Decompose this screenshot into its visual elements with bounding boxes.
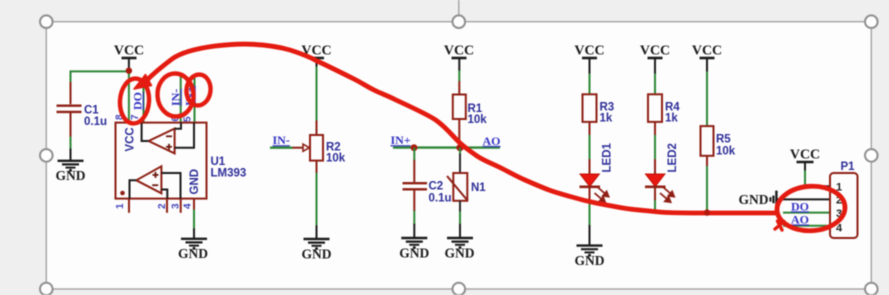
svg-text:GND: GND: [189, 169, 201, 195]
svg-text:10k: 10k: [326, 153, 346, 165]
wire R4 to LED2: [654, 135, 656, 160]
junction R5/GND rail: [704, 209, 710, 215]
svg-text:VCC: VCC: [125, 127, 137, 151]
svg-text:0.1u: 0.1u: [429, 193, 452, 205]
svg-text:1k: 1k: [600, 112, 613, 124]
ground below C1: [56, 137, 86, 183]
power VCC (P1): [790, 148, 820, 172]
capacitor C1: [57, 71, 129, 137]
svg-text:GND: GND: [399, 246, 429, 261]
wire IN+ / AO net: [393, 146, 500, 148]
ground below LED1: [575, 225, 605, 268]
svg-text:VCC: VCC: [692, 44, 722, 59]
LED2: [645, 143, 679, 202]
svg-text:5: 5: [183, 116, 194, 122]
junction R5 on rail (visible): [704, 210, 710, 216]
svg-text:DO: DO: [131, 92, 145, 110]
svg-text:1k: 1k: [665, 112, 678, 124]
power VCC (R4): [640, 44, 670, 75]
wire VCC to R4: [654, 74, 656, 95]
wire: IN+ to pin 5: [175, 123, 194, 148]
svg-text:C1: C1: [84, 105, 99, 117]
power VCC (R1): [444, 44, 474, 72]
wire U1 pin 7 stub (DO): [143, 82, 145, 123]
ground below U1: [178, 228, 208, 261]
wire VCC to R1: [458, 71, 460, 82]
thermistor N1: [447, 148, 486, 212]
wire DO to P1 pin 3: [783, 212, 830, 214]
emission arrows: [595, 188, 609, 203]
svg-text:IN-: IN-: [169, 89, 183, 106]
wire LED1 to ground: [589, 200, 591, 225]
wire ground to P1 pin 2: [776, 198, 830, 200]
svg-text:GND: GND: [445, 246, 475, 261]
wire LED2 to GND rail: [654, 200, 656, 213]
ground below C2: [399, 211, 429, 261]
annotation: stray tick: [775, 221, 784, 230]
wire R3 to LED1: [589, 135, 591, 160]
wire R2 to ground: [316, 173, 318, 226]
wire: output to pin 7: [142, 123, 149, 141]
power VCC (R3): [574, 44, 604, 75]
svg-text:GND: GND: [739, 192, 769, 207]
annotation: circles around IN- / IN+: [156, 72, 195, 117]
svg-text:10k: 10k: [716, 146, 736, 158]
wire U1 pin 6 stub (IN-): [180, 76, 182, 123]
wire: [71, 71, 129, 83]
svg-text:GND: GND: [575, 253, 605, 268]
wire U1 pin 5 stub (IN+): [194, 76, 196, 123]
power VCC (R5): [692, 44, 722, 73]
svg-text:LED2: LED2: [667, 143, 679, 172]
svg-text:P1: P1: [841, 161, 856, 173]
junction C2: [411, 144, 418, 151]
connector P1: [830, 161, 858, 238]
svg-text:N1: N1: [471, 182, 486, 194]
svg-text:GND: GND: [178, 246, 208, 261]
pin-1 dot: [120, 191, 125, 196]
emission arrows: [660, 188, 674, 203]
svg-text:IN+: IN+: [391, 133, 411, 147]
junction R1/N1: [456, 144, 463, 151]
wiper arrow: [292, 147, 303, 149]
wire VCC to R5: [706, 72, 708, 127]
wire VCC to R2: [316, 67, 318, 122]
svg-text:LM393: LM393: [211, 167, 247, 179]
svg-text:VCC: VCC: [444, 44, 474, 59]
resistor R3: [583, 94, 615, 135]
svg-text:LED1: LED1: [602, 143, 614, 173]
wire: IN+ to pin 3: [161, 173, 180, 199]
wire IN- to R2 wiper: [270, 146, 293, 148]
potentiometer R2: [292, 121, 346, 174]
svg-text:4: 4: [183, 203, 194, 209]
wire U1 pin 4 to ground: [193, 210, 195, 229]
U1 bottom pin stubs: [129, 199, 194, 213]
resistor R1: [453, 95, 487, 148]
svg-text:GND: GND: [56, 168, 86, 183]
LED1: [580, 143, 614, 203]
annotation: arrowhead: [134, 75, 152, 90]
svg-text:DO: DO: [791, 199, 809, 213]
svg-text:VCC: VCC: [114, 44, 144, 59]
svg-text:AO: AO: [791, 212, 809, 226]
resistor R4: [648, 94, 680, 135]
wire GND rail (LED2/R5 to ground): [655, 211, 777, 213]
op-amp U1 comparator A (bottom triangle): [130, 166, 181, 198]
ground below N1: [445, 212, 475, 261]
wire VCC to P1 pin 1: [804, 171, 806, 187]
wire: output to pin 1: [130, 180, 137, 198]
svg-text:VCC: VCC: [790, 148, 820, 163]
wire R5 to GND rail: [706, 166, 708, 213]
op-amp U1 body: [116, 123, 247, 199]
annotation: long curve DO to P1: [146, 44, 777, 213]
svg-text:2: 2: [157, 203, 168, 209]
svg-text:1: 1: [115, 203, 126, 209]
svg-text:AO: AO: [483, 134, 501, 148]
resistor R5: [701, 126, 736, 166]
ground below R2: [302, 225, 332, 261]
capacitor C2: [403, 148, 452, 212]
power VCC (R2): [301, 44, 331, 68]
annotation: circle around U1 pin 7 / DO: [118, 78, 150, 125]
wire VCC to R3: [589, 74, 591, 95]
svg-text:3: 3: [171, 203, 182, 209]
ground (sideways, at P1 pin 2): [739, 191, 777, 209]
svg-text:0.1u: 0.1u: [84, 116, 107, 128]
svg-text:10k: 10k: [468, 114, 488, 126]
wire: IN- to pin 6: [175, 123, 181, 129]
svg-text:VCC: VCC: [640, 44, 670, 59]
svg-text:R5: R5: [716, 134, 731, 146]
wire: IN- to pin 2: [161, 190, 167, 199]
wire AO to P1 pin 4: [783, 225, 830, 227]
power VCC (U1): [114, 44, 144, 71]
svg-text:GND: GND: [302, 246, 332, 261]
wire VCC to U1 pin 8: [128, 70, 130, 123]
junction VCC/C1: [126, 68, 132, 74]
svg-text:C2: C2: [429, 181, 444, 193]
op-amp U1 comparator B (top triangle): [142, 123, 194, 154]
svg-text:IN-: IN-: [273, 133, 290, 147]
svg-text:VCC: VCC: [574, 44, 604, 59]
annotation: ellipse around P1 DO/AO: [776, 185, 846, 233]
